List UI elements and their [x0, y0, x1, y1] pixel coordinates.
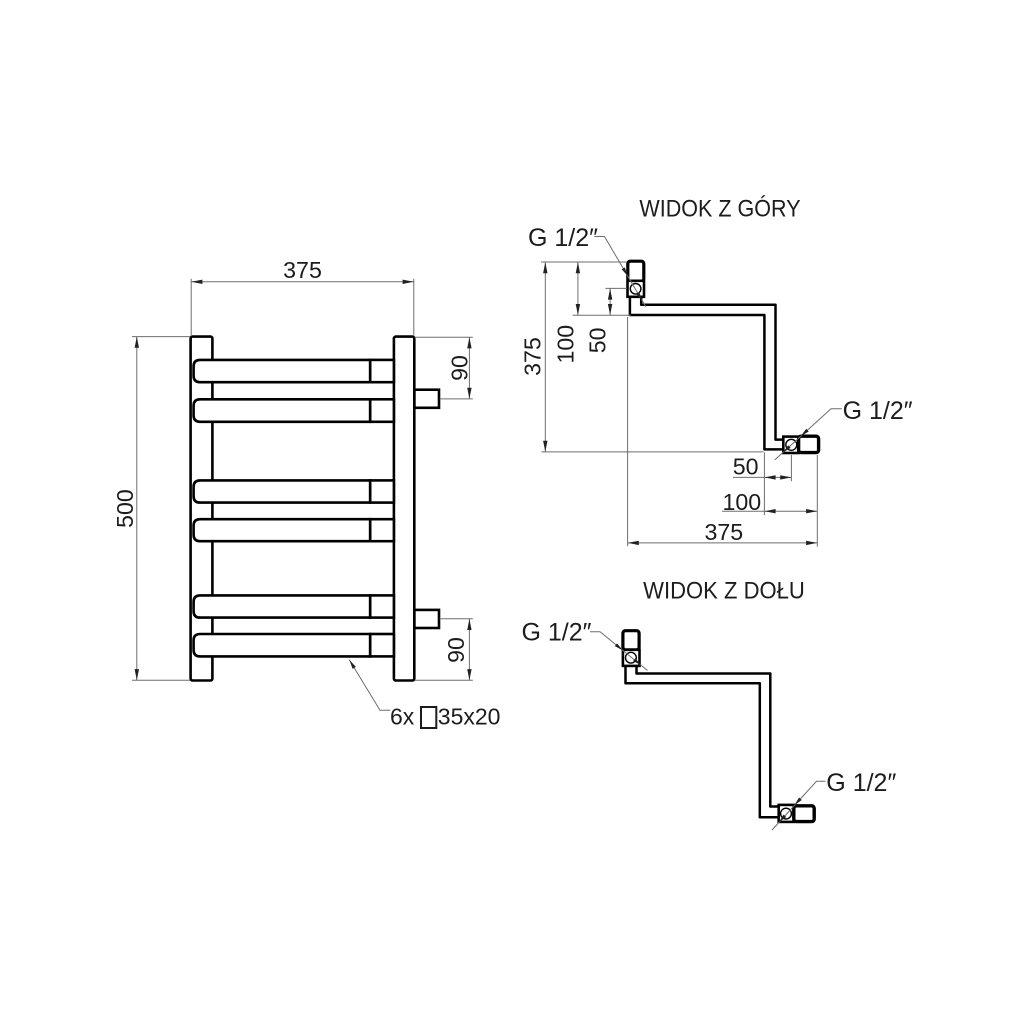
valve top-left	[623, 631, 639, 650]
rung 2	[194, 399, 371, 422]
top connection stub	[414, 390, 439, 408]
dim 50 vertical	[605, 287, 627, 289]
svg-text:375: 375	[705, 519, 744, 545]
rung 5	[194, 595, 371, 617]
svg-text:WIDOK Z GÓRY: WIDOK Z GÓRY	[639, 194, 800, 222]
svg-text:50: 50	[733, 454, 759, 480]
svg-text:500: 500	[112, 489, 138, 528]
svg-text:G 1/2″: G 1/2″	[826, 769, 896, 797]
bottom connection stub	[414, 610, 439, 628]
svg-text:375: 375	[519, 337, 545, 376]
dimension 90 (top right)	[415, 336, 473, 338]
right rail (collector)	[394, 337, 414, 681]
svg-text:G 1/2″: G 1/2″	[843, 397, 913, 425]
dim 100 horizontal bottom	[816, 455, 818, 515]
valve bottom-right	[783, 437, 798, 453]
svg-text:35x20: 35x20	[438, 703, 501, 729]
dim 375 horizontal bottom	[627, 317, 629, 546]
svg-text:375: 375	[283, 257, 322, 283]
svg-text:G 1/2″: G 1/2″	[522, 619, 592, 647]
svg-text:100: 100	[552, 325, 578, 364]
left rail (collector)	[191, 337, 213, 681]
dim 100 vertical	[577, 262, 579, 315]
dim 50 horizontal bottom	[763, 453, 765, 481]
label 6x 35x20 with leader	[349, 660, 390, 711]
pipe outline	[630, 297, 784, 450]
rung 4	[194, 519, 371, 541]
rung 1	[194, 360, 371, 382]
svg-text:WIDOK Z DOŁU: WIDOK Z DOŁU	[643, 576, 805, 603]
valve top-left	[628, 261, 644, 281]
svg-text:90: 90	[447, 355, 473, 381]
svg-text:100: 100	[723, 489, 762, 515]
rung 3	[194, 480, 371, 502]
svg-text:6x: 6x	[390, 703, 415, 729]
rung 6	[194, 634, 371, 656]
svg-text:50: 50	[584, 327, 610, 353]
dimension 90 (bottom right)	[440, 618, 473, 620]
svg-text:G 1/2″: G 1/2″	[528, 224, 598, 252]
dim 375 vertical left	[541, 261, 627, 263]
svg-text:90: 90	[443, 637, 469, 663]
pipe outline	[626, 666, 779, 817]
dimension 500 (left)	[132, 336, 190, 338]
valve bottom-right	[779, 805, 794, 822]
dimension 375 (top)	[190, 279, 192, 336]
